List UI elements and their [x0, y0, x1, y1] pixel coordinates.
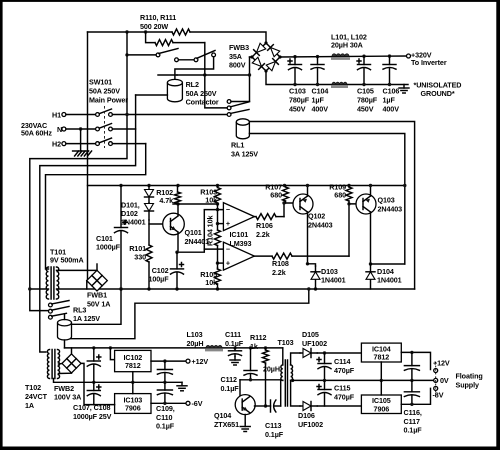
- svg-text:7812: 7812: [374, 353, 390, 362]
- svg-text:Floating: Floating: [456, 372, 483, 381]
- svg-text:C109,: C109,: [156, 404, 175, 413]
- relay contact RL2a: [156, 53, 160, 57]
- wire FWB2 minus down: [81, 363, 94, 404]
- inductor L101: [332, 54, 349, 57]
- svg-text:780µF: 780µF: [357, 96, 378, 105]
- svg-text:20µH: 20µH: [187, 339, 204, 348]
- wire R102 to Q101 collector: [177, 204, 179, 216]
- capacitor C107: [93, 348, 95, 361]
- svg-text:UF1002: UF1002: [302, 339, 327, 348]
- transformer T102: [47, 350, 49, 379]
- wire bridge-left vertical: [249, 57, 251, 102]
- node C103 top: [293, 55, 296, 58]
- svg-text:450V: 450V: [357, 105, 374, 114]
- svg-text:450V: 450V: [289, 105, 306, 114]
- relay coil RL1: [236, 122, 249, 139]
- wire Q102 emitter to rail: [307, 186, 309, 197]
- wire IC105 ground: [380, 380, 382, 395]
- IC103 7906 regulator: [115, 394, 151, 414]
- resistor R111: [155, 40, 173, 46]
- svg-text:470µF: 470µF: [334, 393, 355, 402]
- svg-text:400V: 400V: [383, 105, 400, 114]
- node C101 top: [119, 184, 122, 187]
- svg-text:Contactor: Contactor: [186, 98, 219, 107]
- wire H1 to switch: [66, 114, 96, 116]
- wire IC104 ground: [380, 362, 382, 380]
- node C104 top: [316, 55, 319, 58]
- node bridge-left AC junction: [248, 73, 251, 76]
- svg-text:GROUND*: GROUND*: [421, 89, 455, 98]
- node C109 bottom: [163, 381, 166, 384]
- chassis ground: [73, 150, 89, 152]
- wire RL3 coil top stub: [64, 314, 66, 320]
- node rail IC102 tap: [109, 346, 112, 349]
- svg-text:T102: T102: [25, 383, 41, 392]
- node collector junction: [176, 202, 179, 205]
- node return junction: [307, 287, 310, 290]
- svg-text:C112: C112: [221, 375, 237, 384]
- transistor Q104: [235, 395, 255, 415]
- wire Q103 collector down: [370, 212, 372, 264]
- node Q103 collector join: [369, 262, 372, 265]
- svg-text:FWB3: FWB3: [229, 43, 249, 52]
- wire Q102 collector to D103: [308, 264, 316, 266]
- svg-text:0.1µF: 0.1µF: [404, 426, 423, 435]
- wire FWB2 plus up: [71, 348, 73, 354]
- relay contact RL3 upper: [49, 303, 53, 307]
- connector dotted line: [435, 362, 437, 397]
- svg-text:R108: R108: [272, 259, 289, 268]
- wire R112 bottom to collector node: [265, 364, 267, 406]
- resistor R105: [217, 268, 219, 269]
- capacitor C109: [164, 361, 166, 369]
- svg-text:2N4403: 2N4403: [308, 221, 333, 230]
- svg-text:1000µF 25V: 1000µF 25V: [73, 412, 112, 421]
- node R107 top: [283, 184, 286, 187]
- svg-text:+12V: +12V: [433, 359, 450, 368]
- wire diodes to Q101 base: [149, 220, 164, 224]
- svg-text:1µF: 1µF: [383, 96, 396, 105]
- node chain 204: [216, 202, 219, 205]
- relay contact RL1 lower: [227, 113, 231, 117]
- wire control ground rail: [57, 288, 415, 290]
- wire RL1 NC stub: [231, 101, 250, 103]
- svg-text:0.1µF: 0.1µF: [156, 422, 175, 431]
- node bus T101 junction: [28, 287, 31, 290]
- svg-text:SW101: SW101: [89, 78, 112, 87]
- IC102 7812 regulator: [115, 350, 151, 371]
- inductor L102: [332, 82, 347, 84]
- wire +9V rail: [88, 185, 405, 187]
- resistor R110: [172, 29, 190, 35]
- capacitor C108: [93, 382, 95, 390]
- node Q102 collector join: [306, 262, 309, 265]
- wire RL2 coil to N bus: [136, 94, 168, 96]
- svg-text:7906: 7906: [125, 404, 141, 413]
- wire T102 sec bottom to FWB2 bottom: [59, 372, 72, 374]
- svg-text:9V 500mA: 9V 500mA: [50, 255, 84, 264]
- svg-text:20µH 30A: 20µH 30A: [331, 41, 363, 50]
- svg-text:+: +: [226, 259, 230, 268]
- wire to opamp A noninverting: [218, 223, 224, 225]
- node C105 top: [362, 55, 365, 58]
- terminal +12V: [186, 359, 190, 363]
- node chain 210: [216, 208, 219, 211]
- capacitor C101: [120, 186, 122, 228]
- node C114 bottom: [323, 379, 326, 382]
- wire N to switch: [66, 128, 96, 130]
- svg-text:C115: C115: [334, 384, 350, 393]
- capacitor C103: [294, 57, 296, 65]
- terminal N: [62, 127, 66, 131]
- terminal -6V: [186, 401, 190, 405]
- wire C113 to primary bottom: [280, 380, 282, 406]
- svg-text:50A 60Hz: 50A 60Hz: [21, 129, 52, 138]
- svg-text:−: −: [226, 205, 230, 214]
- wire Q103 collector to RL1 return: [371, 263, 405, 265]
- wire to opamp B noninverting: [218, 262, 224, 264]
- wire IC103 out -6V: [151, 402, 186, 404]
- svg-text:C114: C114: [334, 357, 350, 366]
- capacitor C106: [389, 56, 391, 64]
- node rail C111: [233, 346, 236, 349]
- ground Q104: [244, 423, 246, 427]
- svg-text:C111: C111: [225, 330, 241, 339]
- wire minus rail to IC103: [94, 404, 115, 406]
- node C116 bottom: [410, 379, 413, 382]
- resistor R101: [148, 224, 150, 245]
- svg-text:1k: 1k: [250, 342, 258, 351]
- wire chain segment 2: [217, 246, 219, 269]
- wire switched H2: [112, 143, 145, 145]
- ground C111: [234, 357, 236, 361]
- svg-text:1N4001: 1N4001: [121, 218, 146, 227]
- wire center tap 0V rail: [54, 379, 183, 383]
- node rail RL3-coil drop: [119, 287, 122, 290]
- capacitor C112: [250, 348, 252, 371]
- svg-text:H2: H2: [52, 140, 61, 149]
- svg-text:H1: H1: [52, 111, 61, 120]
- node C107 bottom: [92, 381, 95, 384]
- wire +320V rail: [280, 56, 408, 57]
- svg-text:IC101: IC101: [230, 230, 249, 239]
- wire RL1 coil bottom to Q103 node: [249, 134, 404, 265]
- svg-text:1N4001: 1N4001: [377, 276, 402, 285]
- terminal H2: [62, 142, 66, 146]
- switch SW101 pole H2 contacts: [96, 142, 100, 146]
- svg-text:0V: 0V: [440, 376, 449, 385]
- capacitor C116: [411, 352, 413, 365]
- wire floating 0V: [293, 379, 436, 381]
- wire R108 to Q103 base: [349, 204, 357, 256]
- resistor R112: [265, 348, 267, 350]
- wire main left bus to FWB1: [87, 32, 89, 281]
- svg-text:T103: T103: [278, 338, 294, 347]
- wire Q104 collector to C113: [255, 405, 266, 407]
- svg-text:ZTX651: ZTX651: [214, 420, 239, 429]
- svg-text:780µF: 780µF: [289, 96, 310, 105]
- wire Q104 emitter to ground: [244, 415, 246, 424]
- svg-text:10k: 10k: [205, 196, 217, 205]
- svg-text:400V: 400V: [312, 105, 329, 114]
- svg-text:C116,: C116,: [404, 408, 422, 417]
- inductor L103: [206, 345, 222, 347]
- transistor Q102: [293, 194, 313, 214]
- capacitor C117: [411, 380, 413, 391]
- svg-text:C113: C113: [265, 421, 281, 430]
- node D103 bottom: [314, 287, 317, 290]
- relay contact RL3 middle: [49, 309, 53, 313]
- wire RL1 coil top to right bus: [249, 122, 414, 290]
- svg-text:0.1µF: 0.1µF: [221, 384, 240, 393]
- svg-text:470µF: 470µF: [334, 366, 355, 375]
- wire rail to T103 primary top: [282, 348, 284, 365]
- svg-text:4.7k: 4.7k: [159, 196, 173, 205]
- resistor R106: [254, 216, 256, 218]
- node R102 top: [176, 184, 179, 187]
- svg-text:680: 680: [334, 191, 346, 200]
- svg-text:C117: C117: [404, 417, 420, 426]
- node rail R112: [264, 346, 267, 349]
- wire switched N: [112, 128, 135, 130]
- node C106 top: [388, 54, 391, 57]
- terminal floating -8V: [434, 386, 438, 390]
- wire base node: [240, 379, 281, 381]
- svg-text:RL2: RL2: [186, 80, 199, 89]
- node C112 join: [249, 378, 252, 381]
- wire IC103 ground: [132, 382, 134, 393]
- svg-text:C106: C106: [383, 87, 400, 96]
- svg-text:D106: D106: [298, 411, 315, 420]
- node C116 top: [410, 351, 413, 354]
- wire bus H1 down-left to RL3: [30, 32, 127, 311]
- bridge rectifier FWB3: [249, 40, 269, 60]
- wire AC2 to bridge left: [177, 74, 250, 76]
- switch SW101 gang dashes: [104, 106, 106, 148]
- wire R106/R107 to Q102 base: [284, 203, 293, 217]
- wire FWB1 left corner down to rail: [86, 281, 88, 289]
- wire bridge left corner stub: [250, 56, 253, 58]
- wire RL2 lower contact to AC2: [158, 74, 177, 76]
- node N ground tap: [79, 127, 82, 130]
- relay coil RL3: [58, 323, 72, 340]
- svg-text:100V 3A: 100V 3A: [54, 393, 81, 402]
- svg-text:7906: 7906: [374, 404, 390, 413]
- svg-text:Q104: Q104: [214, 411, 231, 420]
- relay contact RL1 upper stub: [227, 100, 231, 104]
- svg-text:1A: 1A: [25, 401, 34, 410]
- node AC junction at 204.8,75: [203, 73, 206, 76]
- svg-text:0.1µF: 0.1µF: [265, 430, 284, 439]
- wire primary bottom tie: [281, 379, 283, 382]
- wire H2 to switch: [66, 143, 96, 145]
- svg-text:+: +: [226, 219, 230, 228]
- wire RL2b to RL2 coil: [175, 57, 214, 80]
- wire FWB1 plus stub: [96, 264, 98, 270]
- node Q102 rail junction: [306, 184, 309, 187]
- svg-text:800V: 800V: [229, 61, 246, 70]
- svg-text:50A 250V: 50A 250V: [186, 89, 217, 98]
- node rail C112: [249, 346, 252, 349]
- wire top AC from bus to R110: [88, 31, 173, 33]
- node chain B+ tap: [216, 261, 219, 264]
- node H1 bus top junction: [125, 30, 128, 33]
- capacitor C104: [317, 57, 319, 65]
- node R109 top: [347, 184, 350, 187]
- svg-text:To Inverter: To Inverter: [411, 58, 447, 67]
- wire RL2a to RL2b: [178, 59, 194, 61]
- node R105 bottom: [216, 287, 219, 290]
- node C109 top: [163, 359, 166, 362]
- IC104 7812 regulator: [361, 343, 401, 362]
- transistor Q101: [163, 213, 185, 235]
- wire +12V unreg rail: [65, 347, 283, 349]
- wire negative rail: [266, 71, 408, 85]
- svg-text:C103: C103: [289, 87, 306, 96]
- capacitor C102: [176, 252, 178, 269]
- diode D102: [148, 203, 150, 220]
- op-amp IC101b: [223, 242, 254, 270]
- op-amp IC101a: [223, 203, 254, 231]
- diode D105: [300, 352, 317, 354]
- diode D101: [148, 186, 150, 204]
- svg-text:L103: L103: [187, 330, 203, 339]
- svg-text:1000µF: 1000µF: [96, 243, 121, 252]
- wire T101 primary bottom to bus: [30, 288, 49, 290]
- switch SW101 pole N contacts: [96, 127, 100, 131]
- terminal floating 0V: [434, 378, 438, 382]
- node R101 bottom: [147, 287, 150, 290]
- wire RL3 coil return loop: [66, 289, 309, 339]
- node chain top: [216, 184, 219, 187]
- capacitor C111: [234, 348, 236, 351]
- svg-text:RL1: RL1: [231, 141, 244, 150]
- wire rail to RL3 coil side: [72, 289, 122, 324]
- resistor R104: [215, 230, 221, 246]
- wire IC102 ground: [132, 372, 134, 383]
- node C114 top: [323, 351, 326, 354]
- node C110 bottom: [163, 402, 166, 405]
- svg-text:Main Power: Main Power: [89, 96, 128, 105]
- wire R110 to FWB3 top corner: [190, 32, 266, 44]
- svg-text:R110, R111: R110, R111: [140, 13, 176, 22]
- node C113 left: [264, 404, 267, 407]
- svg-text:-8V: -8V: [433, 390, 444, 399]
- node Q103 base junction: [347, 202, 350, 205]
- node rail C107: [92, 346, 95, 349]
- wire N to chassis ground: [80, 129, 82, 151]
- node C101 bottom: [119, 287, 122, 290]
- wire bus H2 down-left to T101: [46, 144, 146, 269]
- wire D106 to IC105: [317, 405, 361, 407]
- svg-text:R106: R106: [256, 221, 273, 230]
- svg-text:0.1µF: 0.1µF: [225, 339, 244, 348]
- switch SW101 pole H1 contacts: [96, 113, 100, 117]
- node IC102 gnd join: [131, 381, 134, 384]
- transformer T101: [46, 267, 48, 299]
- capacitor C110: [164, 382, 166, 390]
- node D101 top: [147, 184, 150, 187]
- node H1 bus RL2a junction: [125, 53, 128, 56]
- wire IC105 out: [401, 388, 430, 404]
- svg-text:100µF: 100µF: [148, 275, 169, 284]
- node R111 branch left junction: [144, 30, 147, 33]
- ground unisolated: [403, 85, 405, 89]
- wire T102 sec top to FWB2 left: [59, 362, 63, 365]
- node Q102 base junction: [282, 201, 285, 204]
- IC105 7906 regulator: [361, 395, 401, 414]
- svg-text:1N4001: 1N4001: [321, 276, 346, 285]
- node IC104 gnd: [380, 379, 383, 382]
- capacitor C113: [266, 405, 271, 407]
- node secondary center tap: [291, 379, 294, 382]
- svg-text:Q103: Q103: [378, 196, 395, 205]
- svg-text:2N4403: 2N4403: [378, 205, 403, 214]
- svg-text:C104: C104: [312, 87, 329, 96]
- svg-text:-6V: -6V: [192, 399, 203, 408]
- wire bus N down-left to T102: [40, 95, 136, 352]
- ground bottom section: [181, 382, 183, 386]
- wire to opamp B inverting: [204, 248, 223, 250]
- transistor Q103: [356, 194, 376, 214]
- terminal +320V: [407, 54, 411, 58]
- diode D104: [370, 264, 372, 289]
- node C105 bottom: [362, 83, 365, 86]
- wire RL3 coil to +12V unreg rail: [64, 340, 66, 348]
- svg-text:R112: R112: [250, 333, 266, 342]
- wire Q102 collector down: [307, 212, 309, 264]
- svg-text:Supply: Supply: [456, 381, 479, 390]
- svg-text:680: 680: [270, 191, 282, 200]
- bridge rectifier FWB2: [62, 354, 81, 373]
- svg-text:24VCT: 24VCT: [25, 392, 48, 401]
- capacitor C114: [324, 353, 326, 364]
- diode D103: [315, 266, 317, 289]
- node C117 bottom: [410, 403, 413, 406]
- wire Q101 emitter loop to opamp A inverting input: [178, 210, 223, 253]
- svg-text:D105: D105: [302, 330, 319, 339]
- wire T101 secondary top to FWB1: [57, 269, 98, 271]
- terminal floating +12V: [434, 369, 438, 373]
- node emitter C102 tap: [175, 251, 178, 254]
- svg-text:C110: C110: [156, 413, 172, 422]
- relay contact RL1 blade: [227, 106, 231, 110]
- wire H1 bus to RL2a: [127, 54, 156, 56]
- svg-text:50V 1A: 50V 1A: [87, 300, 110, 309]
- relay contact RL3 lower: [49, 315, 53, 319]
- node chain A+ tap: [216, 222, 219, 225]
- svg-text:20µH: 20µH: [263, 365, 280, 374]
- relay coil RL2 body: [167, 83, 182, 102]
- svg-text:10k: 10k: [205, 278, 217, 287]
- node C104 bottom: [316, 83, 319, 86]
- svg-text:3A 125V: 3A 125V: [231, 150, 258, 159]
- svg-text:R104 10k: R104 10k: [206, 216, 215, 246]
- svg-text:+12V: +12V: [192, 357, 209, 366]
- svg-text:FWB1: FWB1: [87, 291, 107, 300]
- svg-text:UF1002: UF1002: [298, 420, 323, 429]
- wire secondary bottom to D106: [291, 380, 300, 406]
- svg-text:Q102: Q102: [308, 212, 325, 221]
- resistor R109: [348, 186, 350, 188]
- bridge rectifier FWB1: [87, 270, 108, 291]
- node H1 wire junction: [125, 113, 128, 116]
- node C102 bottom: [175, 287, 178, 290]
- wire R111 to right branch: [173, 42, 205, 44]
- diode D106: [300, 405, 317, 407]
- wire to R111: [146, 32, 155, 43]
- resistor R107: [285, 186, 287, 188]
